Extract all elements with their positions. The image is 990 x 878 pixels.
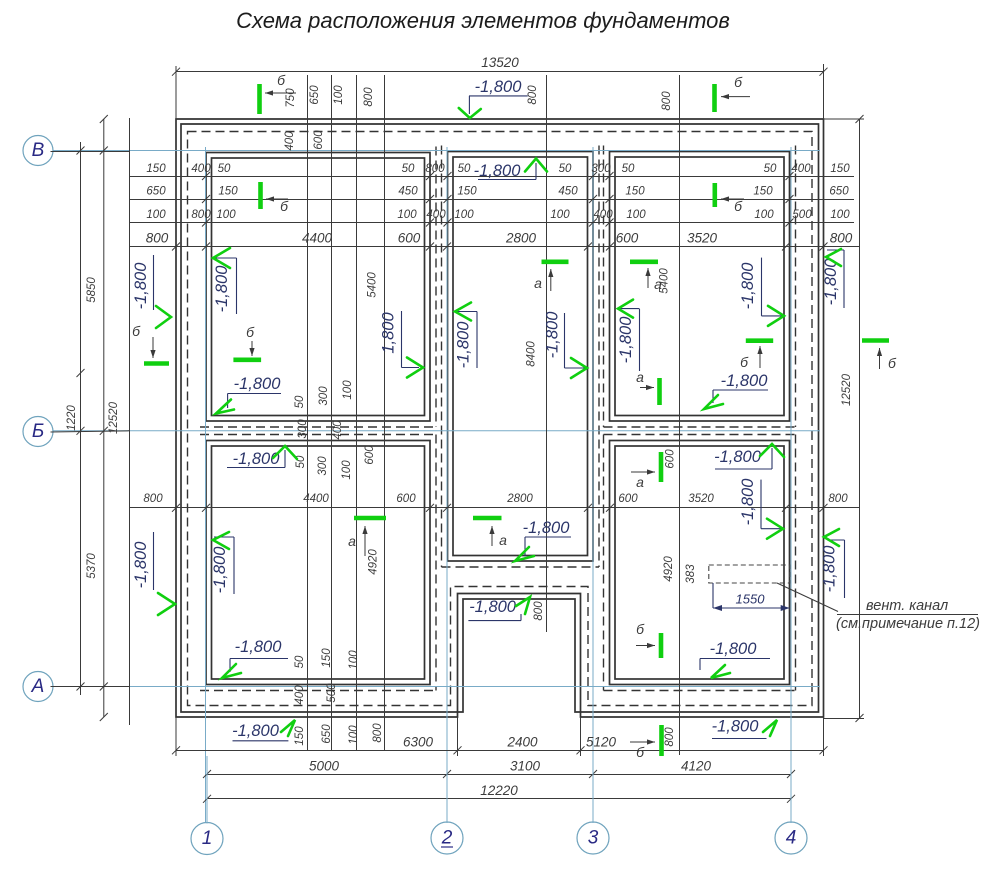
mid row tick <box>202 504 210 512</box>
ladder column line d <box>384 75 386 750</box>
bottom dim row line 2 (axes) <box>207 774 791 776</box>
ladder column line b <box>331 75 333 750</box>
axis 3 connector <box>592 756 594 823</box>
svg-text:100: 100 <box>216 209 236 221</box>
section tick б room3 <box>712 183 717 207</box>
svg-text:a: a <box>636 369 644 385</box>
right 12520 tick <box>856 714 864 722</box>
svg-text:800: 800 <box>661 91 673 111</box>
svg-text:150: 150 <box>457 186 477 198</box>
section tick a room4 <box>354 516 386 521</box>
svg-text:5850: 5850 <box>86 277 98 303</box>
room opening 1 top-left wall outer <box>206 153 430 422</box>
section mark a room2-bottom <box>491 526 493 546</box>
svg-text:А: А <box>31 676 45 697</box>
svg-text:a: a <box>534 275 542 291</box>
svg-text:600: 600 <box>664 449 676 469</box>
section tick a room3-bottom <box>657 378 662 405</box>
svg-text:750: 750 <box>285 88 297 108</box>
room opening 4 bottom-left footing dashed top <box>200 434 436 436</box>
section tick a room3-top <box>630 259 658 264</box>
svg-text:400: 400 <box>191 163 211 175</box>
outer wall footing dashed outline <box>188 132 813 706</box>
axis bubble 2 numeral underline <box>441 846 453 848</box>
ladder row tick <box>444 219 452 227</box>
svg-text:3520: 3520 <box>688 493 714 505</box>
section tick б top-left <box>257 84 262 114</box>
left 12520 tick <box>100 427 108 435</box>
notch right extension <box>580 717 582 756</box>
section tick б bottom <box>659 725 664 756</box>
room opening 1 top-left footing dashed right <box>435 147 437 428</box>
svg-text:В: В <box>32 140 45 161</box>
left chain tick <box>77 147 85 155</box>
svg-text:6300: 6300 <box>403 735 434 750</box>
svg-text:100: 100 <box>754 209 774 221</box>
axis line 1 vertical <box>205 147 207 823</box>
axis 2 connector <box>446 756 448 823</box>
svg-text:1: 1 <box>202 828 213 849</box>
svg-text:450: 450 <box>398 186 418 198</box>
mid row tick <box>606 504 614 512</box>
svg-text:-1,800: -1,800 <box>475 78 523 96</box>
svg-text:12220: 12220 <box>480 783 518 798</box>
section mark a room2-top <box>550 269 552 291</box>
svg-text:-1,800: -1,800 <box>455 321 473 369</box>
svg-text:800: 800 <box>143 493 163 505</box>
svg-text:300: 300 <box>591 163 611 175</box>
room opening 4 bottom-left wall outer <box>206 441 430 685</box>
svg-text:Б: Б <box>32 421 44 442</box>
svg-text:3520: 3520 <box>687 231 718 246</box>
svg-text:13520: 13520 <box>481 55 519 70</box>
ladder row tick <box>202 219 210 227</box>
ladder row tick <box>606 195 614 203</box>
bottom extension right corner <box>823 717 825 756</box>
svg-text:12520: 12520 <box>841 373 853 406</box>
row4 tick <box>172 243 180 251</box>
ladder row tick <box>202 172 210 180</box>
svg-text:300: 300 <box>297 419 309 439</box>
mid row tick <box>172 504 180 512</box>
left 12520 tick <box>100 115 108 123</box>
svg-text:б: б <box>734 74 743 90</box>
svg-text:650: 650 <box>321 724 333 744</box>
svg-text:400: 400 <box>332 420 344 440</box>
section mark б top-left <box>265 92 296 94</box>
svg-text:1,800: 1,800 <box>379 312 397 354</box>
vent dim line 1550 <box>713 607 790 609</box>
left 12520 tick <box>100 683 108 691</box>
section mark a room3-top <box>647 268 649 288</box>
svg-text:800: 800 <box>372 723 384 743</box>
svg-text:-1,800: -1,800 <box>821 545 839 593</box>
right dim extension top <box>824 118 865 120</box>
left extension boundary line <box>129 118 131 725</box>
svg-text:4920: 4920 <box>663 556 675 582</box>
axis bubble Б circle <box>23 417 53 447</box>
svg-text:300: 300 <box>318 386 330 406</box>
svg-text:100: 100 <box>348 650 360 670</box>
svg-text:-1,800: -1,800 <box>739 478 757 526</box>
svg-text:500: 500 <box>792 209 812 221</box>
svg-text:150: 150 <box>218 186 238 198</box>
svg-text:150: 150 <box>830 163 850 175</box>
svg-text:12520: 12520 <box>108 401 120 434</box>
room opening 4 bottom-left footing dashed right <box>435 435 437 691</box>
ladder row tick <box>444 195 452 203</box>
svg-text:800: 800 <box>830 231 853 246</box>
ladder row tick <box>786 172 794 180</box>
svg-text:50: 50 <box>294 655 306 668</box>
row4 tick <box>820 243 828 251</box>
svg-text:4120: 4120 <box>681 759 712 774</box>
row4 tick <box>443 243 451 251</box>
svg-text:5000: 5000 <box>309 759 340 774</box>
row4 tick <box>606 243 614 251</box>
svg-text:1550: 1550 <box>736 592 766 607</box>
section mark a room5-top <box>631 471 655 473</box>
room opening 1 top-left footing dashed bottom <box>200 426 436 428</box>
axis line 3 vertical <box>592 147 594 823</box>
section mark б room3-tick <box>759 346 761 368</box>
svg-text:б: б <box>132 323 141 339</box>
svg-text:800: 800 <box>533 601 545 621</box>
right-center extension column <box>679 75 681 755</box>
top dim tick left <box>172 68 180 76</box>
room opening 5 bottom-right footing dashed bottom <box>604 690 796 692</box>
svg-text:100: 100 <box>348 725 360 745</box>
room opening 2 top-middle footing dashed left <box>441 146 443 568</box>
section tick б room1-bottom <box>233 357 261 362</box>
svg-text:-1,800: -1,800 <box>523 519 571 537</box>
svg-text:-1,800: -1,800 <box>232 722 280 740</box>
svg-text:б: б <box>740 354 749 370</box>
section mark б right-outside <box>879 348 881 369</box>
ladder row tick <box>426 195 434 203</box>
section tick a room2-top <box>542 259 569 264</box>
room opening 5 bottom-right footing dashed top <box>604 434 796 436</box>
section tick б room3-right <box>746 338 773 343</box>
svg-text:500: 500 <box>326 683 338 703</box>
svg-text:-1,800: -1,800 <box>132 262 150 310</box>
ladder column line c <box>356 75 358 750</box>
svg-text:б: б <box>277 72 286 88</box>
svg-text:5120: 5120 <box>586 735 617 750</box>
section mark б room5 <box>636 645 655 647</box>
svg-text:1220: 1220 <box>66 405 78 431</box>
svg-text:150: 150 <box>753 186 773 198</box>
room opening 3 top-right footing dashed right <box>795 146 797 428</box>
vent leader line <box>777 583 838 612</box>
row4 tick <box>584 243 592 251</box>
axis line Б horizontal <box>52 430 820 432</box>
ladder row tick <box>202 195 210 203</box>
svg-text:a: a <box>348 533 356 549</box>
ladder dim row line 3 <box>129 222 854 224</box>
room opening 1 top-left wall inner <box>212 158 425 416</box>
mid row tick <box>782 504 790 512</box>
svg-text:600: 600 <box>618 493 638 505</box>
svg-text:4400: 4400 <box>302 231 333 246</box>
svg-text:б: б <box>636 621 645 637</box>
left 12520 tick <box>100 713 108 721</box>
ladder row tick <box>606 172 614 180</box>
svg-text:100: 100 <box>397 209 417 221</box>
middle dim row line <box>130 507 860 509</box>
center extension column <box>546 75 548 632</box>
svg-text:2800: 2800 <box>506 493 533 505</box>
ladder row tick <box>606 219 614 227</box>
axis line 4 vertical <box>790 147 792 823</box>
top extension line left <box>175 66 177 119</box>
top dim end serif left <box>175 66 177 77</box>
svg-text:a: a <box>499 532 507 548</box>
svg-text:400: 400 <box>426 209 446 221</box>
bottom row2 tick <box>787 770 795 778</box>
svg-text:5400: 5400 <box>366 272 378 298</box>
axis bubble 3 circle <box>577 822 609 854</box>
svg-text:800: 800 <box>527 85 539 105</box>
outer foundation wall inner line <box>181 124 819 712</box>
section mark б room1-bottom <box>251 341 253 356</box>
bottom dim row line 3 overall <box>207 798 791 800</box>
svg-text:4920: 4920 <box>367 549 379 575</box>
svg-text:400: 400 <box>593 209 613 221</box>
bottom row3 tick <box>787 795 795 803</box>
svg-text:100: 100 <box>342 380 354 400</box>
bottom dim row line 1 <box>176 750 824 752</box>
svg-text:650: 650 <box>146 186 166 198</box>
svg-text:400: 400 <box>284 131 296 151</box>
ladder row tick <box>589 172 597 180</box>
svg-text:800: 800 <box>191 209 211 221</box>
svg-text:100: 100 <box>341 460 353 480</box>
ladder row tick <box>426 172 434 180</box>
mid row tick <box>584 504 592 512</box>
outer foundation wall outer line <box>176 119 824 717</box>
svg-text:-1,800: -1,800 <box>235 638 283 656</box>
left chain tick <box>77 369 85 377</box>
axis 4 connector <box>790 756 792 823</box>
notch left extension <box>457 717 459 756</box>
svg-text:2800: 2800 <box>505 231 537 246</box>
left chain tick <box>77 683 85 691</box>
right dim extension bottom <box>824 718 865 720</box>
top extension line right <box>823 64 825 119</box>
axis bubble А circle <box>23 672 53 702</box>
svg-text:2: 2 <box>441 828 453 849</box>
svg-text:a: a <box>654 276 662 292</box>
room opening 3 top-right wall inner <box>615 157 784 416</box>
svg-text:-1,800: -1,800 <box>211 546 229 594</box>
svg-text:383: 383 <box>685 564 697 584</box>
svg-text:-1,800: -1,800 <box>710 640 758 658</box>
room opening 2 top-middle wall inner <box>453 157 588 556</box>
svg-text:600: 600 <box>396 493 416 505</box>
section mark a room3-bottom <box>640 387 654 389</box>
svg-text:800: 800 <box>425 163 445 175</box>
section tick б room1 <box>258 182 263 209</box>
svg-text:-1,800: -1,800 <box>721 372 769 390</box>
svg-text:-1,800: -1,800 <box>712 718 760 736</box>
ladder row tick <box>786 219 794 227</box>
svg-text:(см.примечание п.12): (см.примечание п.12) <box>836 616 980 632</box>
mid row tick <box>443 504 451 512</box>
svg-text:650: 650 <box>829 186 849 198</box>
svg-text:вент. канал: вент. канал <box>866 598 948 614</box>
room opening 3 top-right footing dashed left <box>603 146 605 428</box>
ladder dim row line 4 <box>130 246 860 248</box>
svg-text:-1,800: -1,800 <box>739 262 757 310</box>
svg-text:4400: 4400 <box>303 493 329 505</box>
svg-text:800: 800 <box>363 87 375 107</box>
top overall dimension line 13520 <box>176 71 824 73</box>
bottom row3 tick <box>203 795 211 803</box>
svg-text:600: 600 <box>398 231 421 246</box>
svg-text:650: 650 <box>309 85 321 105</box>
svg-text:4: 4 <box>786 828 797 849</box>
section tick б left-outside <box>144 361 169 366</box>
svg-text:б: б <box>734 198 743 214</box>
svg-text:100: 100 <box>333 85 345 105</box>
room opening 3 top-right footing dashed bottom <box>604 426 796 428</box>
section tick б right-outside <box>862 338 889 343</box>
axis bubble В circle <box>23 136 53 166</box>
svg-text:3: 3 <box>588 828 599 849</box>
svg-text:-1,800: -1,800 <box>213 265 231 313</box>
svg-text:2400: 2400 <box>506 735 538 750</box>
section mark б left-outside <box>152 337 154 358</box>
bottom row2 tick <box>203 770 211 778</box>
room opening 2 top-middle wall outer <box>448 152 594 562</box>
axis В connector <box>51 151 130 153</box>
svg-text:-1,800: -1,800 <box>469 598 517 616</box>
vent note underline <box>837 614 978 616</box>
svg-text:600: 600 <box>313 130 325 150</box>
left overall dim line 12520 <box>103 119 105 717</box>
section mark б room3 <box>721 198 744 200</box>
svg-text:300: 300 <box>317 456 329 476</box>
left dim chain line <box>80 142 82 695</box>
bottom row2 tick <box>589 770 597 778</box>
bottom row1 tick <box>577 746 585 754</box>
ladder dim row line 1 <box>129 176 854 178</box>
room opening 4 bottom-left wall inner <box>212 446 425 679</box>
ladder row tick <box>426 219 434 227</box>
svg-text:-1,800: -1,800 <box>474 162 522 180</box>
svg-text:a: a <box>636 474 644 490</box>
axis bubble 2 circle <box>431 822 463 854</box>
svg-text:-1,800: -1,800 <box>714 448 762 466</box>
room opening 5 bottom-right footing dashed right <box>795 435 797 691</box>
section tick a room2-bottom <box>473 516 502 521</box>
svg-text:150: 150 <box>146 163 166 175</box>
svg-text:50: 50 <box>559 163 572 175</box>
axis line 2 vertical <box>446 147 448 823</box>
svg-text:50: 50 <box>622 163 635 175</box>
mid row tick <box>820 504 828 512</box>
svg-text:50: 50 <box>458 163 471 175</box>
room opening 5 bottom-right wall inner <box>615 446 784 679</box>
bottom row1 tick <box>454 746 462 754</box>
svg-text:100: 100 <box>146 209 166 221</box>
row4 tick <box>782 243 790 251</box>
bottom row2 tick <box>443 770 451 778</box>
room opening 2 top-middle footing dashed right <box>598 146 600 568</box>
bottom row1 tick <box>172 746 180 754</box>
svg-text:600: 600 <box>616 231 639 246</box>
section mark б bottom <box>630 741 655 743</box>
svg-text:50: 50 <box>764 163 777 175</box>
section mark a room4 <box>364 526 366 556</box>
top dim end serif right <box>823 66 825 77</box>
room opening 5 bottom-right wall outer <box>610 441 790 685</box>
svg-text:50: 50 <box>218 163 231 175</box>
section mark б room1 <box>266 198 288 200</box>
ladder row tick <box>786 195 794 203</box>
svg-text:150: 150 <box>625 186 645 198</box>
bottom extension left corner <box>175 717 177 756</box>
ladder column line a <box>307 75 309 750</box>
svg-text:50: 50 <box>402 163 415 175</box>
svg-text:800: 800 <box>664 727 676 747</box>
room opening 2 top-middle footing dashed bottom <box>442 566 600 568</box>
svg-text:б: б <box>636 744 645 760</box>
axis bubble 1 circle <box>191 823 223 855</box>
row4 tick <box>426 243 434 251</box>
room opening 4 bottom-left footing dashed bottom <box>200 690 436 692</box>
axis Б connector <box>51 431 130 432</box>
ladder row tick <box>589 195 597 203</box>
svg-text:100: 100 <box>626 209 646 221</box>
bottom row1 tick <box>820 746 828 754</box>
section tick б room5 <box>659 633 664 658</box>
svg-text:б: б <box>280 198 289 214</box>
left chain tick <box>77 427 85 435</box>
ladder row tick <box>444 172 452 180</box>
axis line А horizontal <box>52 686 820 688</box>
ladder dim row line 2 <box>129 199 854 201</box>
svg-text:450: 450 <box>558 186 578 198</box>
svg-text:100: 100 <box>550 209 570 221</box>
mid row tick <box>426 504 434 512</box>
svg-text:-1,800: -1,800 <box>234 375 282 393</box>
svg-text:400: 400 <box>791 163 811 175</box>
svg-text:5370: 5370 <box>86 553 98 579</box>
svg-text:-1,800: -1,800 <box>544 311 562 359</box>
svg-text:100: 100 <box>454 209 474 221</box>
svg-text:400: 400 <box>294 685 306 705</box>
section tick б top-right <box>712 84 717 112</box>
svg-text:800: 800 <box>828 493 848 505</box>
svg-text:б: б <box>888 355 897 371</box>
row4 tick <box>202 243 210 251</box>
svg-text:-1,800: -1,800 <box>617 316 635 364</box>
section mark б top-right <box>721 96 750 98</box>
svg-text:3100: 3100 <box>510 759 541 774</box>
room opening 5 bottom-right footing dashed left <box>603 435 605 691</box>
svg-text:150: 150 <box>294 726 306 746</box>
room opening 3 top-right wall outer <box>610 152 790 422</box>
top dim tick right <box>820 68 828 76</box>
svg-text:800: 800 <box>146 231 169 246</box>
axis А connector <box>51 686 130 688</box>
svg-text:150: 150 <box>321 648 333 668</box>
right overall dim line 12520 <box>859 119 861 718</box>
axis bubble 4 circle <box>775 822 807 854</box>
svg-text:-1,800: -1,800 <box>132 541 150 589</box>
